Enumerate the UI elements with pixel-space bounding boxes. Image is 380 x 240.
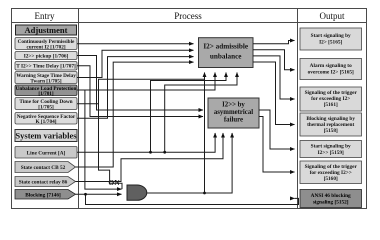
junction dot on Blocking line [84, 193, 87, 196]
wire: AND output -> U2 bottom3 [147, 133, 233, 193]
output box O6 [300, 161, 362, 184]
junction dot on Line Current line 2 [163, 151, 166, 154]
svg-text:unbalance: unbalance [210, 53, 242, 61]
svg-text:asymmetrical: asymmetrical [214, 109, 253, 116]
svg-text:Process: Process [174, 11, 202, 21]
entry box: Unbalance Load Protection (dark) [15, 85, 77, 97]
wire branch: Unbalance Load Protection -> AND in1 [85, 90, 122, 189]
wire: Blocking -> AND in2 [76, 193, 122, 195]
junction dot on Line Current line 1 [149, 151, 152, 154]
process box U2: I2>> by asymmetrical failure [208, 98, 259, 128]
output box O3 [300, 87, 362, 111]
wire: U2 out1 -> O5 [259, 110, 295, 149]
arrow into ANSI box [294, 197, 296, 199]
svg-text:I2> [5165]: I2> [5165] [319, 40, 342, 46]
System variables header box [15, 130, 77, 142]
svg-text:[5158]: [5158] [324, 128, 338, 134]
entry arrow box: State contact relay 86 [15, 177, 76, 187]
wire: Time for Cooling Down staircase to gate [99, 104, 123, 189]
entry arrow box: Blocking (dark) [15, 190, 76, 200]
svg-text:I2> admissible: I2> admissible [203, 43, 248, 51]
svg-text:signaling [5152]: signaling [5152] [313, 200, 349, 206]
svg-text:K [1/704]: K [1/704] [35, 119, 56, 125]
wire branch: Line Current riser -> U1 bottom4 [165, 73, 237, 153]
svg-text:Adjustment: Adjustment [25, 25, 68, 35]
svg-text:[5160]: [5160] [324, 176, 338, 182]
svg-text:Twarn [1/705]: Twarn [1/705] [30, 79, 61, 85]
output box O4 [300, 113, 362, 136]
wire branch: Blocking -> bottom rail -> ANSI output [86, 194, 299, 204]
wire: U1 out1 -> O1 [253, 41, 295, 44]
svg-text:failure: failure [224, 117, 243, 124]
entry box: Time for Cooling Down [15, 98, 77, 111]
svg-text:Entry: Entry [35, 11, 55, 21]
svg-text:current I2 [1/702]: current I2 [1/702] [26, 45, 65, 51]
output box O7: ANSI 46 blocking (dark) [300, 190, 362, 208]
entry box: Warning Stage Time Delay [15, 72, 77, 85]
wire: State contact CB52 -> U1 in4 [76, 62, 194, 167]
svg-text:[5161]: [5161] [324, 102, 338, 108]
wire: Negative Sequence Factor -> U1 in3 [77, 57, 194, 119]
wire: U2 out2 -> O6 [259, 117, 295, 173]
svg-text:Alarm signaling to: Alarm signaling to [310, 63, 352, 69]
entry box: I2 pickup [15, 52, 77, 60]
svg-text:Blocking [7146]: Blocking [7146] [25, 193, 61, 199]
wire: Time for Cooling Down upper branch [77, 79, 205, 104]
svg-text:ANSI 46 blocking: ANSI 46 blocking [311, 193, 351, 199]
svg-text:I2>> by: I2>> by [222, 102, 245, 109]
wire: U1 out4 -> O4 [253, 62, 295, 125]
svg-text:T I2>> Time Delay [1/707]: T I2>> Time Delay [1/707] [16, 64, 76, 70]
wire branch: AND output -> U1 bottom1 [204, 73, 206, 194]
column divider Process/Output [297, 9, 299, 209]
wire: Continuously Permissible current -> U1 in1 [77, 43, 194, 45]
svg-text:ON: ON [108, 178, 120, 187]
svg-text:Start signaling by: Start signaling by [311, 33, 351, 39]
Adjustment header box [16, 25, 77, 35]
entry arrow box: State contact CB 52 [15, 162, 76, 173]
svg-text:Output: Output [319, 11, 345, 21]
output box O1 [300, 28, 362, 50]
svg-text:I2>> pickup [1/706]: I2>> pickup [1/706] [24, 54, 69, 60]
svg-text:Start signaling by: Start signaling by [311, 144, 351, 150]
wire: I2 pickup -> U2 in1 [77, 56, 203, 111]
process box U1: I2> admissible unbalance [199, 38, 254, 68]
wire: Warning Stage -> U1 in2 [77, 50, 194, 77]
entry box: Line Current [15, 147, 77, 159]
wire: U1 out2 -> O2 [253, 50, 295, 70]
svg-text:System variables: System variables [15, 131, 77, 141]
svg-text:State contact CB 52: State contact CB 52 [21, 165, 66, 171]
column divider Entry/Process [78, 9, 80, 209]
wire: T I2 delay -> U2 in2 [77, 66, 203, 117]
output box O5 [300, 141, 362, 158]
output box O2 [300, 59, 362, 80]
junction dot on AND output line [203, 192, 206, 195]
AND gate [127, 185, 147, 200]
svg-text:I2>> [5159]: I2>> [5159] [318, 150, 344, 156]
wire branch: Line Current riser -> U1 bottom3 [151, 73, 227, 153]
svg-text:overcome I2> [5165]: overcome I2> [5165] [308, 70, 354, 76]
wire: Unbalance Load Protection -> U1 bottom2 [77, 73, 215, 91]
svg-text:State contact relay 86: State contact relay 86 [19, 180, 68, 186]
svg-text:[1/701]: [1/701] [38, 91, 54, 97]
entry box: Negative Sequence Factor [15, 113, 77, 126]
wire: relay 86 -> U2 bottom2 [76, 133, 224, 182]
wire: U1 out3 -> O3 [253, 56, 295, 99]
frame outer border [12, 9, 367, 209]
svg-text:[1/705]: [1/705] [38, 105, 54, 111]
entry box: Continuously Permissible current [15, 38, 77, 51]
header separator [11, 22, 367, 24]
entry box: T I2 time delay [15, 62, 77, 71]
svg-text:Line Current [A]: Line Current [A] [27, 151, 66, 157]
wire: Line Current -> U2 bottom1 [77, 133, 215, 152]
